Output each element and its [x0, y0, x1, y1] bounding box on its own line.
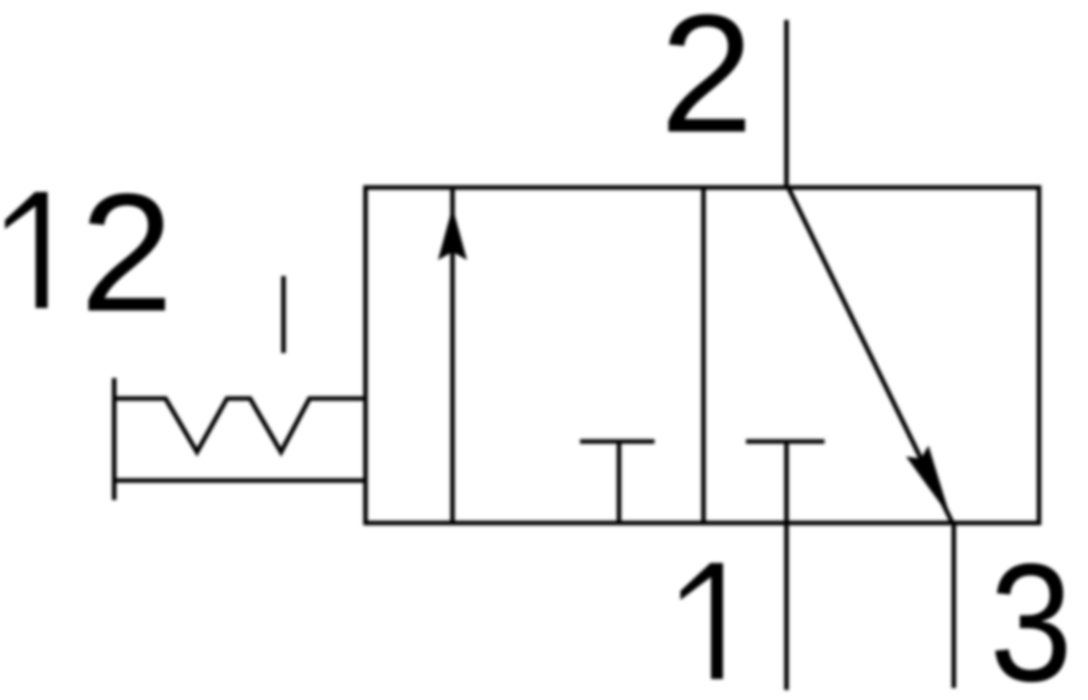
svg-text:2: 2	[80, 159, 173, 347]
svg-text:2: 2	[660, 0, 753, 168]
svg-text:3: 3	[990, 528, 1073, 700]
